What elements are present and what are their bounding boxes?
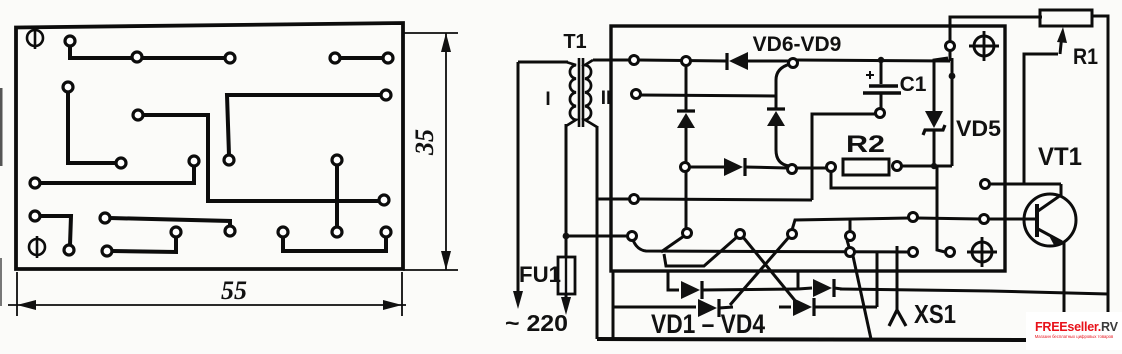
wire pin3 to node A vertical [639, 199, 812, 200]
diagonal node B down-right to VD3 [743, 237, 797, 303]
diode VD9 [690, 158, 787, 176]
diode VD7 vertical [677, 61, 695, 164]
wire lower horizontal bottom [597, 339, 1027, 340]
transistor collector [1038, 184, 1061, 211]
wire R1 right down the side [1092, 16, 1108, 330]
diode VD1 [681, 281, 798, 299]
trace pad H1 right-up to H2 [112, 237, 176, 252]
pin F [909, 248, 918, 257]
wire parallel branch [951, 58, 954, 166]
schematic mounting hole top-right [969, 31, 999, 61]
wire mains top horizontal [518, 61, 568, 64]
svg-text:VD5: VD5 [956, 116, 1001, 141]
node bridge bottom-right [788, 165, 797, 174]
node bridge bottom-left [681, 163, 690, 172]
resistor R2 [843, 159, 889, 175]
pin collector net [981, 180, 990, 189]
bottom rail from bridge to R2 [796, 167, 827, 170]
wire collector net [989, 183, 1061, 186]
transformer T1 secondary winding [585, 60, 597, 127]
trace pad F1 right-down to F2 [40, 216, 71, 245]
plug XS1 stem from box [896, 246, 899, 311]
trace pad E1 right-up to E2 [40, 166, 194, 183]
junction on fuse wire [563, 233, 570, 240]
pin base [980, 215, 989, 224]
wire lower rail to emitter junction [990, 291, 1108, 294]
pin R2 right [893, 162, 902, 171]
svg-text:VD6-VD9: VD6-VD9 [753, 33, 842, 56]
diode VD3 [779, 298, 877, 316]
diode VD8 branch with arcs [767, 64, 790, 166]
svg-text:C1: C1 [900, 73, 927, 96]
node A [683, 229, 692, 238]
wire VD3 up to long rail [876, 252, 879, 307]
svg-text:R2: R2 [846, 131, 885, 158]
dimension 55 arrows [17, 300, 36, 310]
svg-text:VD1 – VD4: VD1 – VD4 [651, 309, 765, 339]
pin 2 [632, 90, 641, 99]
mains left arrow [513, 291, 523, 309]
diagonal node B down-left [664, 237, 737, 266]
stub to VD1 [668, 271, 679, 290]
wire R2 to VD5 branch [901, 165, 952, 168]
wire mains left vertical [517, 62, 520, 295]
trace pad C1 right-down-right to C2 [143, 115, 379, 201]
wire long lower rail from VD4 [840, 289, 990, 291]
transformer T1 primary winding [566, 62, 576, 126]
wire plus rail to C1 junction [797, 60, 950, 61]
wire fuse to mains bottom [565, 294, 568, 301]
trace pad A4 to A5 [339, 56, 384, 60]
PCB board outline [16, 23, 403, 269]
svg-text:II: II [601, 88, 612, 109]
zener VD5 [923, 58, 948, 166]
wire tap to pin 3 [597, 198, 629, 201]
pads [30, 36, 393, 256]
pin 3 [630, 195, 639, 204]
mounting hole top-left [27, 27, 43, 49]
wire branch down to pin [937, 166, 945, 252]
wire plus rail up to R1 [949, 51, 952, 61]
pin R2 left [827, 163, 836, 172]
wire node C up and over to pin E [792, 218, 909, 230]
pin E [909, 213, 918, 222]
svg-text:Т1: Т1 [563, 31, 586, 53]
svg-text:Магазин бесплатных цифровых то: Магазин бесплатных цифровых товаров [1035, 334, 1114, 339]
stub box edge to VD4 [797, 271, 800, 289]
wire junction down to mains tap [566, 235, 627, 238]
wire primary bottom to fuse [565, 124, 568, 257]
svg-text:55: 55 [221, 276, 247, 305]
scan artifact left edge [0, 88, 3, 166]
dimension 55 extension lines [8, 272, 406, 316]
svg-text:VT1: VT1 [1038, 143, 1082, 171]
pin bottom middle [946, 248, 955, 257]
trace pad D1 left-down to D2 [227, 95, 381, 155]
trace pad J1 down-right-up to J2 [283, 237, 386, 251]
dimension 35 arrows [441, 33, 451, 52]
junction bridge top-left [682, 57, 691, 66]
pin C1 bottom [876, 109, 885, 118]
capacitor C1 [863, 60, 901, 109]
svg-text:I: I [545, 89, 550, 110]
svg-text:FREEseller.RV: FREEseller.RV [1035, 320, 1119, 334]
wire C1 bottom left and down [812, 114, 876, 200]
wire bridge bottom to node A [685, 172, 688, 228]
diode VD6 [727, 52, 788, 70]
resistor R1 [1040, 10, 1092, 26]
node D lower ring and diagonal to bottom rail [847, 240, 849, 247]
wire from pin4 curving to long lower rail [633, 240, 908, 252]
transistor base bar [1035, 204, 1039, 237]
node B [736, 230, 745, 239]
wire secondary bottom down to bottom rail [596, 126, 599, 339]
wire R2 bypass below [831, 171, 937, 188]
pin 1 [630, 56, 639, 65]
schematic mounting hole bottom-right [967, 237, 997, 267]
wire drop to node D [849, 220, 852, 232]
node D [846, 232, 855, 241]
transistor emitter [1038, 229, 1062, 242]
transistor VT1 circle [1024, 194, 1076, 246]
node C [788, 230, 797, 239]
svg-text:XS1: XS1 [914, 299, 956, 329]
pin on plus rail [946, 42, 955, 51]
wire R1 wiper branch [1024, 54, 1058, 184]
wire base [988, 218, 1038, 221]
transformer T1 core [578, 58, 581, 127]
wire secondary top to pin 1 [593, 59, 629, 62]
fuse FU1 [558, 257, 575, 294]
dimension 35 extension lines [403, 33, 458, 270]
plug XS1 symbol [889, 310, 906, 326]
wire pin1 to bridge node [639, 60, 726, 61]
svg-text:R1: R1 [1073, 44, 1098, 69]
wire pin2 to VD8 branch [640, 95, 776, 96]
wire pin E to base pin [917, 218, 979, 219]
junction on branch [949, 73, 956, 80]
logo FREEseller.RV [1026, 312, 1122, 350]
diagonal node A down-left [661, 236, 684, 252]
R1 wiper arrow [1060, 34, 1062, 54]
trace pad B1 down-right to B2 [68, 92, 116, 163]
wire below box to VD2 [612, 271, 615, 339]
pin 4 [628, 232, 637, 241]
mounting hole bottom-left [29, 236, 45, 258]
diagonal node C down-left to VD2 [730, 237, 789, 305]
PCB box outline [611, 26, 1005, 271]
trace pad G1 right-down to G2 [110, 218, 230, 226]
node after VD6 [789, 59, 798, 68]
svg-text:~ 220: ~ 220 [505, 310, 568, 336]
diode VD4 [798, 279, 842, 297]
trace vertical pad K1 to K2 [335, 165, 339, 227]
svg-text:35: 35 [410, 129, 439, 156]
junction C1 top [878, 57, 884, 63]
diode VD2 [698, 299, 733, 317]
trace from pad A1 to pad A3 [70, 45, 226, 58]
svg-text:FU1: FU1 [519, 262, 561, 287]
junction VD5 bottom [931, 163, 937, 169]
wire emitter down [1063, 242, 1066, 313]
